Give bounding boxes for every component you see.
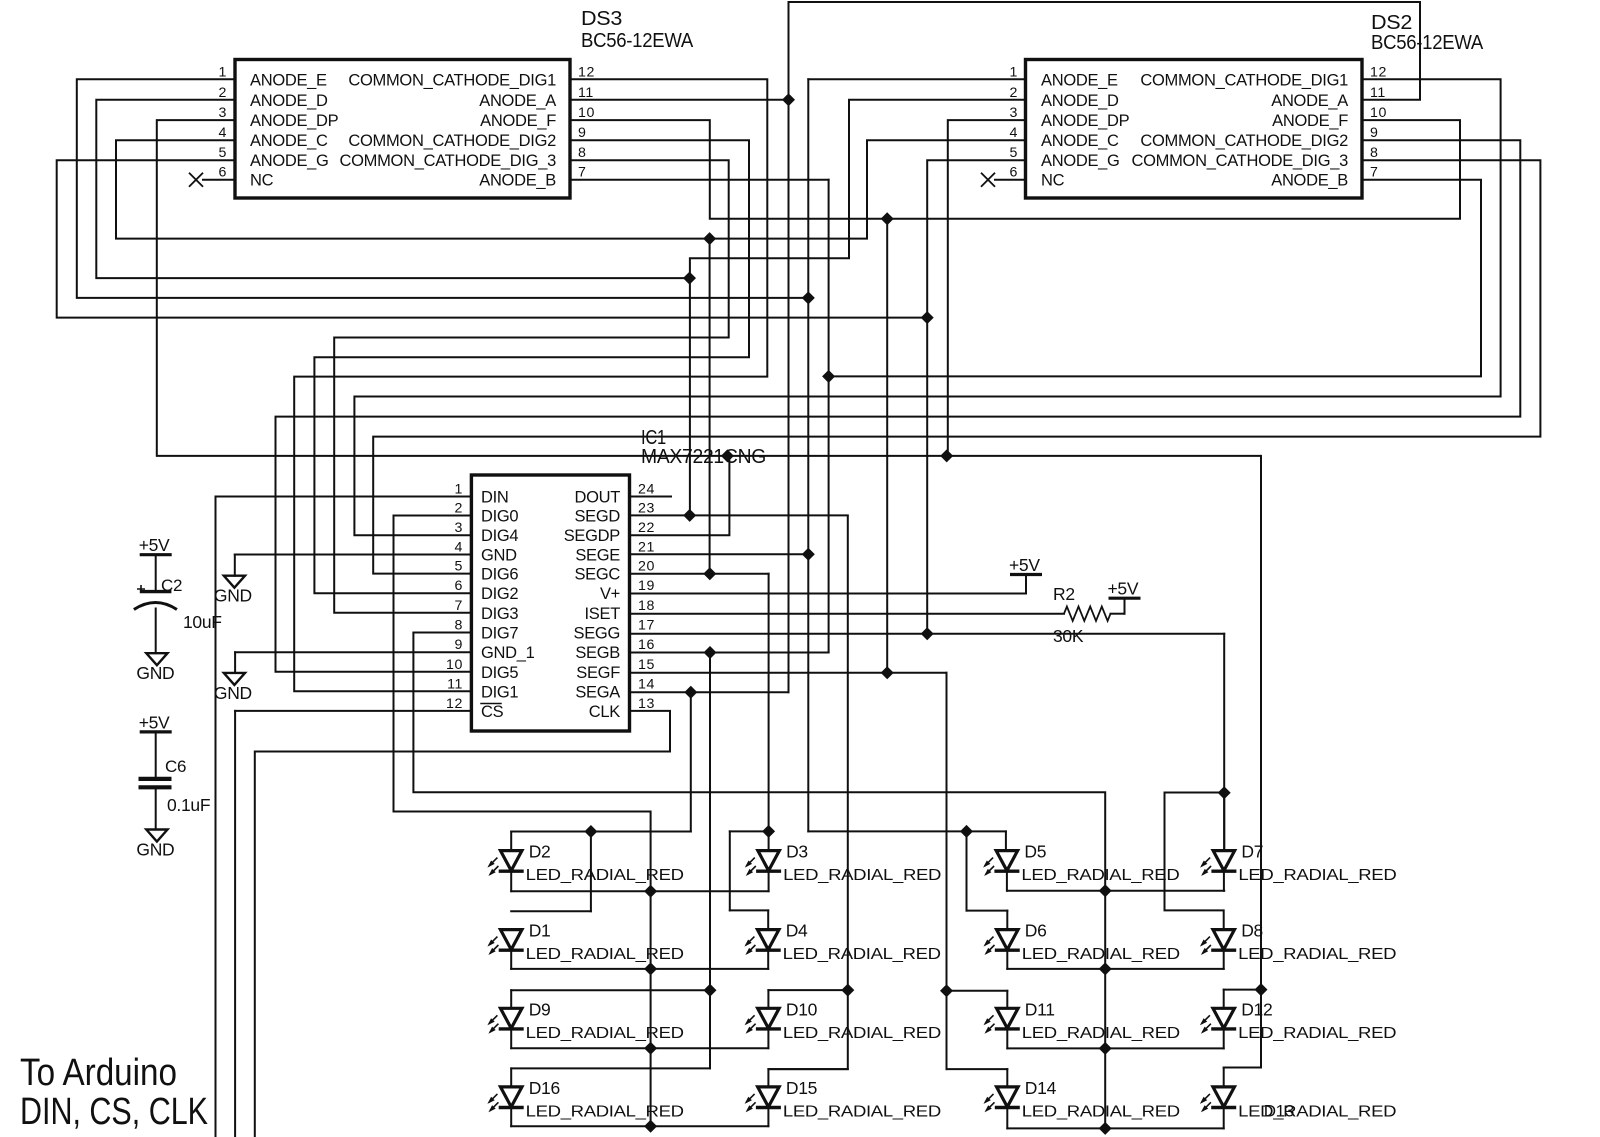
svg-text:DIG7: DIG7 [481, 625, 518, 643]
svg-text:DS2: DS2 [1371, 12, 1412, 34]
wire D4 anode drop [767, 910, 769, 929]
junction D3 anode [762, 825, 775, 838]
wire D10 anode rail [768, 989, 847, 991]
svg-text:LED_RADIAL_RED: LED_RADIAL_RED [1021, 867, 1179, 884]
svg-text:C2: C2 [161, 576, 182, 595]
svg-text:COMMON_CATHODE_DIG1: COMMON_CATHODE_DIG1 [1140, 71, 1348, 89]
svg-text:20: 20 [638, 559, 655, 575]
LED D7 LED_RADIAL_RED [1213, 851, 1235, 871]
svg-text:LED_RADIAL_RED: LED_RADIAL_RED [526, 1103, 684, 1120]
wire SEGDP pin22 up to ANODE_DP line [630, 456, 730, 535]
wire ANODE_F: DS3.10 to DS2.10 via y219 [570, 120, 1460, 219]
svg-text:2: 2 [1010, 85, 1019, 101]
svg-text:DS3: DS3 [581, 8, 622, 30]
svg-text:11: 11 [447, 676, 463, 692]
wire link D5-D6 anode [966, 831, 968, 910]
junction ANODE_F drop [881, 212, 894, 225]
svg-text:D10: D10 [786, 999, 818, 1019]
svg-text:SEGDP: SEGDP [564, 527, 621, 545]
svg-text:DIG6: DIG6 [481, 566, 518, 584]
wire SEGF column down to D11/D14 rails [946, 673, 948, 1069]
svg-text:C6: C6 [165, 757, 186, 776]
junction SEGF on D11 rail [940, 984, 953, 997]
svg-text:5: 5 [219, 145, 228, 161]
svg-text:D5: D5 [1024, 842, 1046, 862]
junction ANODE_B branch [822, 370, 835, 383]
svg-text:LED_RADIAL_RED: LED_RADIAL_RED [783, 1103, 941, 1120]
svg-text:ANODE_E: ANODE_E [250, 71, 327, 89]
junction DIG0 on row3 bus [644, 1042, 657, 1055]
svg-text:SEGG: SEGG [574, 625, 620, 643]
svg-text:11: 11 [578, 85, 594, 101]
svg-text:NC: NC [250, 172, 274, 190]
wire row4 right cathode bus [1007, 1127, 1223, 1129]
svg-text:GND: GND [214, 586, 252, 606]
wire D4 anode rail [730, 909, 768, 911]
wire row3 left cathode bus [511, 1047, 768, 1049]
wire row2 right cathode bus [1007, 968, 1223, 970]
svg-text:COMMON_CATHODE_DIG2: COMMON_CATHODE_DIG2 [348, 132, 556, 150]
wire D10 anode drop [767, 990, 769, 1008]
wire D2 cathode drop [510, 871, 512, 891]
wire CC_DIG_3 DS2.8 to IC1 DIG6 pin 5 [373, 160, 1540, 573]
wire +5V to C6 top plate [155, 732, 157, 777]
LED D11 LED_RADIAL_RED [997, 1008, 1019, 1028]
wire row4 left cathode bus [511, 1125, 768, 1127]
power +5V symbol above C2 [140, 553, 172, 556]
svg-text:6: 6 [219, 165, 228, 181]
svg-text:MAX7221CNG: MAX7221CNG [641, 446, 766, 468]
svg-text:3: 3 [1010, 105, 1019, 121]
junction D2 rail to D1 link [584, 825, 597, 838]
power +5V symbol above C6 [140, 730, 172, 733]
junction SEGC / ANODE_C [703, 567, 716, 580]
junction ANODE_E at DS2.1 column [802, 291, 815, 304]
svg-text:21: 21 [638, 540, 655, 556]
wire SEGG branch to D8 anode rail [1165, 793, 1225, 930]
svg-text:LED_RADIAL_RED: LED_RADIAL_RED [783, 867, 941, 884]
svg-text:DIG1: DIG1 [481, 683, 518, 701]
junction SEGG column / D8 branch [1218, 786, 1231, 799]
svg-text:10: 10 [446, 657, 463, 673]
svg-text:ANODE_B: ANODE_B [1271, 172, 1348, 190]
wire C6 bottom to GND [155, 789, 157, 830]
svg-text:10: 10 [1370, 105, 1387, 121]
wire D1 anode rail [511, 910, 591, 912]
wire CC_DIG1: DS3.12 to IC1 DIG1 pin 11 [294, 79, 767, 691]
wire SEGC pin20 horizontal [630, 573, 769, 575]
junction DIG7 on row3 bus [1099, 1042, 1112, 1055]
wire ANODE_B vertical x828 down to SEGB [828, 180, 830, 652]
svg-text:D2: D2 [529, 842, 551, 862]
wire ANODE_A: DS3.11 stub right [570, 99, 789, 101]
wire D10 cathode drop [767, 1029, 769, 1048]
LED D5 LED_RADIAL_RED [996, 851, 1018, 871]
svg-text:4: 4 [1010, 125, 1019, 141]
svg-text:30K: 30K [1053, 626, 1084, 646]
wire ANODE_C: DS3.4 to DS2.4 [116, 140, 1026, 238]
svg-text:ANODE_B: ANODE_B [479, 172, 556, 190]
svg-text:14: 14 [638, 676, 655, 692]
wire SEGE pin21 to ANODE_E column [630, 553, 809, 555]
junction DIG7 on row1 bus [1099, 884, 1112, 897]
junction ANODE_G at DS2.5 column [921, 311, 934, 324]
wire ANODE_DP link to D13 rail [1260, 990, 1262, 1068]
wire D16 anode rail [511, 1067, 710, 1069]
svg-text:4: 4 [219, 125, 228, 141]
wire D11 cathode drop [1006, 1029, 1008, 1049]
svg-text:D9: D9 [529, 999, 551, 1019]
svg-text:23: 23 [638, 501, 655, 517]
svg-text:DIG0: DIG0 [481, 508, 518, 526]
svg-text:ISET: ISET [585, 605, 621, 623]
wire GND_1 pin9 horizontal [235, 651, 471, 653]
wire D3 anode rail [730, 830, 769, 832]
junction SEGD on D10 rail [841, 984, 854, 997]
svg-text:ANODE_C: ANODE_C [250, 132, 328, 150]
svg-text:5: 5 [1010, 145, 1019, 161]
wire D8 cathode drop [1223, 950, 1225, 969]
wire +5V stem (V+) [1025, 575, 1027, 594]
svg-text:ANODE_G: ANODE_G [250, 152, 329, 170]
wire D3 cathode drop [768, 871, 770, 891]
wire D14 anode rail [947, 1068, 1008, 1070]
svg-text:ANODE_DP: ANODE_DP [1041, 112, 1130, 130]
wire +5V to C2 top plate [155, 555, 157, 592]
wire D11 anode rail [947, 990, 1008, 992]
junction D5 rail to D6 link [960, 825, 973, 838]
junction ANODE_D join [683, 272, 696, 285]
svg-text:R2: R2 [1053, 584, 1075, 604]
svg-text:SEGE: SEGE [575, 547, 620, 565]
junction ANODE_DP at DS2.3 column [940, 449, 953, 462]
svg-text:DIG2: DIG2 [481, 585, 518, 603]
wire ANODE_DP: DS2.3 down to y456 line [948, 120, 1026, 456]
svg-text:7: 7 [578, 165, 587, 181]
wire D4 cathode drop [767, 950, 769, 969]
junction SEGA drop [684, 686, 697, 699]
wire CLK pin13 route to Arduino [255, 711, 670, 1137]
svg-text:13: 13 [638, 696, 655, 712]
wire SEGG column down to D7 anode [1223, 634, 1225, 850]
svg-text:ANODE_G: ANODE_G [1041, 152, 1120, 170]
wire CC_DIG2 DS2.9 to IC1 DIG5 pin 10 [276, 140, 1521, 672]
svg-text:COMMON_CATHODE_DIG_3: COMMON_CATHODE_DIG_3 [340, 152, 557, 170]
wire DIN vertical to Arduino [215, 497, 217, 1137]
IC U1 MAX7221CNG box [471, 475, 629, 731]
wire ANODE_D: DS2.2 down to SEGD [690, 100, 1026, 516]
svg-text:+5V: +5V [1108, 579, 1139, 599]
svg-text:DIG5: DIG5 [481, 664, 518, 682]
wire D15 anode rail [768, 1068, 847, 1070]
svg-text:D8: D8 [1241, 921, 1263, 941]
svg-text:12: 12 [446, 696, 463, 712]
svg-text:7: 7 [455, 598, 464, 614]
svg-text:0.1uF: 0.1uF [167, 795, 210, 815]
svg-text:LED_RADIAL_RED: LED_RADIAL_RED [1022, 1025, 1180, 1042]
wire D9 cathode drop [510, 1029, 512, 1048]
wire ANODE_G: DS3.5 down-right to DS2.5 column [57, 160, 928, 317]
svg-text:12: 12 [578, 64, 595, 80]
wire D14 anode drop [1006, 1069, 1008, 1087]
svg-text:SEGA: SEGA [575, 683, 620, 701]
no-connect X on DS2 pin 6 [981, 173, 995, 187]
wire SEGA column down to D2 rail [690, 692, 692, 831]
svg-text:LED_RADIAL_RED: LED_RADIAL_RED [783, 946, 941, 963]
wire DOUT pin24 stub [630, 496, 672, 498]
LED D2 LED_RADIAL_RED [500, 851, 522, 871]
junction DIG0 on row1 bus [644, 885, 657, 898]
wire V+ pin19 to +5V [630, 593, 1027, 595]
svg-text:CS: CS [481, 703, 504, 721]
wire CC_DIG_3: DS3.8 to IC1 DIG3 pin 7 [334, 160, 729, 613]
wire DIG0 column to LED cathode buses [394, 516, 651, 1127]
svg-text:ANODE_E: ANODE_E [1041, 71, 1118, 89]
svg-text:ANODE_A: ANODE_A [479, 92, 556, 110]
svg-text:LED_RADIAL_RED: LED_RADIAL_RED [1238, 867, 1396, 884]
svg-text:LED_RADIAL_RED: LED_RADIAL_RED [783, 1025, 941, 1042]
LED D13 LED_RADIAL_RED [1213, 1087, 1235, 1107]
svg-text:D1: D1 [529, 921, 551, 941]
svg-text:GND: GND [136, 663, 174, 683]
wire link D3-D4 anode [729, 831, 731, 910]
wire D2 anode rail [511, 831, 691, 833]
svg-text:LED_RADIAL_RED: LED_RADIAL_RED [1022, 1103, 1180, 1120]
wire ANODE_B branch to DS2.7 [829, 180, 1481, 377]
wire row3 right cathode bus [1007, 1047, 1223, 1049]
junction ANODE_A at DS3.11 [782, 93, 795, 106]
wire D15 anode drop [767, 1069, 769, 1087]
wire D7 cathode drop [1223, 871, 1225, 891]
svg-text:ANODE_A: ANODE_A [1271, 92, 1348, 110]
svg-text:5: 5 [455, 559, 464, 575]
svg-text:BC56-12EWA: BC56-12EWA [1371, 32, 1484, 54]
svg-text:DIN: DIN [481, 489, 509, 507]
svg-text:DIG4: DIG4 [481, 527, 518, 545]
svg-text:7: 7 [1370, 165, 1379, 181]
svg-text:SEGC: SEGC [574, 566, 620, 584]
svg-text:LED_RADIAL_RED: LED_RADIAL_RED [1022, 946, 1180, 963]
junction ANODE_C drop [703, 232, 716, 245]
svg-text:17: 17 [638, 618, 655, 634]
power +5V symbol for V+ [1010, 573, 1042, 576]
wire D16 cathode drop [510, 1108, 512, 1127]
svg-text:To Arduino: To Arduino [20, 1052, 177, 1094]
no-connect X on DS3 pin 6 [189, 173, 203, 187]
LED D8 LED_RADIAL_RED [1213, 930, 1235, 950]
svg-text:LED_RADIAL_RED: LED_RADIAL_RED [526, 946, 684, 963]
svg-text:18: 18 [638, 598, 655, 614]
svg-text:SEGF: SEGF [576, 664, 620, 682]
svg-text:11: 11 [1370, 85, 1386, 101]
svg-text:DOUT: DOUT [574, 489, 620, 507]
svg-text:12: 12 [1370, 64, 1387, 80]
wire D6 anode rail [967, 910, 1008, 912]
wire D6 anode drop [1006, 911, 1008, 930]
svg-text:9: 9 [578, 125, 587, 141]
wire ANODE_DP column x1261 down to D12/D13 [1260, 456, 1262, 990]
wire GND pin4 horizontal [235, 554, 472, 556]
svg-text:2: 2 [219, 85, 228, 101]
LED D6 LED_RADIAL_RED [997, 930, 1019, 950]
wire DIG0 pin2 stub [394, 515, 472, 517]
svg-text:6: 6 [1010, 165, 1019, 181]
svg-text:+5V: +5V [139, 712, 170, 732]
svg-text:COMMON_CATHODE_DIG2: COMMON_CATHODE_DIG2 [1140, 132, 1348, 150]
svg-text:LED_RADIAL_RED: LED_RADIAL_RED [1238, 946, 1396, 963]
svg-text:3: 3 [455, 520, 464, 536]
ground symbol for IC1 GND_1 pin 9 [224, 673, 245, 685]
svg-text:GND: GND [481, 547, 517, 565]
wire CS vertical to Arduino [234, 711, 236, 1137]
svg-text:LED_RADIAL_RED: LED_RADIAL_RED [526, 1025, 684, 1042]
wire R2 right lead [1111, 613, 1125, 615]
svg-text:D16: D16 [529, 1078, 560, 1098]
svg-text:NC: NC [1041, 172, 1065, 190]
svg-text:SEGD: SEGD [574, 508, 620, 526]
wire row1 left cathode bus [511, 890, 768, 892]
junction SEGE / ANODE_E [802, 548, 815, 561]
wire row2 left cathode bus [511, 968, 768, 970]
svg-text:8: 8 [455, 618, 464, 634]
wire ANODE_E feed to D5 anode rail [808, 830, 1006, 832]
LED D14 LED_RADIAL_RED [997, 1087, 1019, 1107]
svg-text:2: 2 [455, 501, 464, 517]
wire link D2-D1 anode [590, 832, 592, 912]
wire ANODE_DP: DS3.3 down, long horizontal y456 [157, 120, 1261, 456]
wire ANODE_C column x709 to SEGC [709, 239, 711, 574]
wire ANODE_E: DS2.1 stub [808, 78, 1025, 80]
svg-text:1: 1 [455, 482, 464, 498]
wire D2 anode drop [510, 832, 512, 851]
wire CS pin12 horizontal [235, 710, 471, 712]
wire D12 anode rail [1224, 989, 1261, 991]
ground symbol below C6 [146, 830, 167, 842]
wire D5 cathode drop [1006, 871, 1008, 891]
wire D9 anode rail [511, 989, 710, 991]
LED D1 LED_RADIAL_RED [500, 930, 522, 950]
wire D16 anode drop [510, 1068, 512, 1087]
svg-text:ANODE_DP: ANODE_DP [250, 112, 339, 130]
svg-text:SEGB: SEGB [575, 644, 620, 662]
junction SEGB drop [703, 646, 716, 659]
svg-text:LED_RADIAL_RED: LED_RADIAL_RED [526, 867, 684, 884]
wire ANODE_E vertical column x808 [807, 79, 809, 831]
wire +5V stem (R2) [1124, 598, 1126, 614]
svg-text:D6: D6 [1025, 921, 1047, 941]
svg-text:BC56-12EWA: BC56-12EWA [581, 30, 694, 52]
svg-text:DIG3: DIG3 [481, 605, 518, 623]
display DS2 BC56-12EWA box [1026, 60, 1363, 199]
LED D12 LED_RADIAL_RED [1213, 1008, 1235, 1028]
wire DS3 NC stub [203, 179, 235, 181]
display DS3 BC56-12EWA box [235, 60, 570, 199]
svg-text:1: 1 [219, 64, 228, 80]
wire CC_DIG2: DS3.9 to IC1 DIG2 pin 6 [314, 140, 749, 593]
junction DIG7 on row2 bus [1099, 962, 1112, 975]
wire ANODE_F column x887 to SEGF [886, 219, 888, 673]
svg-text:3: 3 [219, 105, 228, 121]
junction SEGG / ANODE_G [921, 627, 934, 640]
wire D13 anode rail [1224, 1067, 1261, 1069]
power +5V symbol for R2 [1109, 597, 1141, 600]
svg-text:6: 6 [455, 578, 464, 594]
IC1 CS overline [481, 703, 501, 705]
svg-text:ANODE_F: ANODE_F [480, 112, 556, 130]
svg-text:8: 8 [1370, 145, 1379, 161]
svg-text:GND: GND [136, 840, 174, 860]
wire ANODE_G: DS2.5 down to SEGG line [927, 160, 1025, 634]
junction SEGD / ANODE_D [683, 509, 696, 522]
wire ANODE_A vertical column x788 down to SEGA [788, 2, 790, 692]
svg-text:+5V: +5V [139, 535, 170, 555]
junction ANODE_DP on D12 rail [1254, 983, 1267, 996]
svg-text:ANODE_D: ANODE_D [250, 92, 328, 110]
junction DIG7 on row4 bus [1099, 1122, 1112, 1135]
svg-text:LED_RADIAL_RED: LED_RADIAL_RED [1238, 1025, 1396, 1042]
wire D15 cathode drop [767, 1108, 769, 1127]
wire DIG7 pin8 stub [413, 632, 471, 634]
wire ANODE_D: DS3.2 left-down-right [96, 100, 689, 278]
wire SEGB pin16 horizontal [630, 652, 829, 654]
wire DIG7 column to LED cathode buses [413, 633, 1105, 1129]
wire ANODE_A top route to DS2.11 [789, 2, 1421, 100]
svg-text:8: 8 [578, 145, 587, 161]
wire D13 cathode drop [1223, 1108, 1225, 1129]
svg-text:GND: GND [214, 683, 252, 703]
wire D12 anode drop [1223, 990, 1225, 1009]
svg-text:10uF: 10uF [183, 612, 222, 632]
wire SEGC drop to D3 anode [768, 574, 770, 851]
wire GND_1 drop [234, 652, 236, 673]
LED D9 LED_RADIAL_RED [500, 1008, 522, 1028]
wire CC_DIG1 DS2.12 to IC1 DIG4 pin 3 [354, 79, 1500, 535]
svg-text:DIN, CS, CLK: DIN, CS, CLK [20, 1091, 208, 1133]
junction SEGF / ANODE_F [881, 666, 894, 679]
svg-text:ANODE_F: ANODE_F [1272, 112, 1348, 130]
LED D4 LED_RADIAL_RED [757, 930, 779, 950]
svg-text:D3: D3 [786, 842, 808, 862]
wire row1 right cathode bus [1007, 890, 1224, 892]
svg-text:D14: D14 [1025, 1078, 1057, 1098]
svg-text:19: 19 [638, 578, 655, 594]
junction DIG0 on row2 bus [644, 962, 657, 975]
svg-text:CLK: CLK [589, 703, 620, 721]
wire DIN pin1 horizontal [216, 496, 472, 498]
wire D14 cathode drop [1006, 1108, 1008, 1129]
svg-text:D12: D12 [1241, 999, 1272, 1019]
wire SEGB column down to D9/D16 rails [709, 653, 711, 1069]
svg-text:COMMON_CATHODE_DIG1: COMMON_CATHODE_DIG1 [348, 71, 556, 89]
wire ANODE_B: DS3.7 right [570, 179, 829, 181]
LED D10 LED_RADIAL_RED [758, 1008, 780, 1028]
wire SEGD pin23 horizontal [630, 514, 848, 516]
svg-text:V+: V+ [600, 585, 620, 603]
svg-text:D7: D7 [1241, 842, 1263, 862]
junction SEGB on D9 rail [703, 984, 716, 997]
LED D15 LED_RADIAL_RED [758, 1087, 780, 1107]
wire DS2 NC stub [995, 179, 1026, 181]
svg-text:+5V: +5V [1009, 555, 1040, 575]
svg-text:24: 24 [638, 482, 655, 498]
svg-text:9: 9 [1370, 125, 1379, 141]
junction ANODE_DP to SEGDP [721, 449, 734, 462]
svg-text:22: 22 [638, 520, 655, 536]
svg-text:COMMON_CATHODE_DIG_3: COMMON_CATHODE_DIG_3 [1132, 152, 1349, 170]
wire D9 anode drop [510, 990, 512, 1008]
svg-text:15: 15 [638, 657, 655, 673]
wire ANODE_E: DS3.1 to DS2.1 column [77, 79, 809, 298]
